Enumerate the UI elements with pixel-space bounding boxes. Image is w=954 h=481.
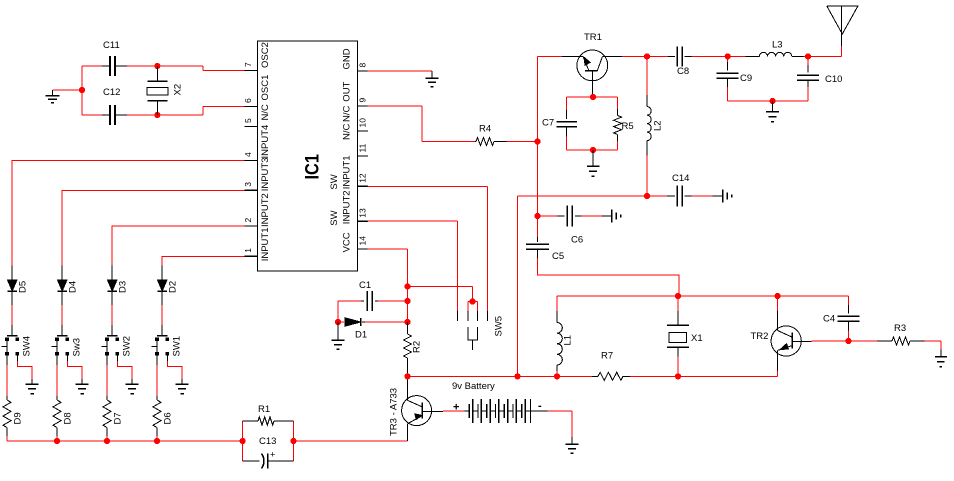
svg-text:1: 1 [243,248,253,253]
svg-text:INPUT1: INPUT1 [260,228,271,262]
svg-text:C4: C4 [823,314,835,325]
svg-text:-: - [538,400,542,412]
svg-text:SW2: SW2 [122,336,133,357]
svg-text:D8: D8 [63,412,74,424]
svg-text:D2: D2 [168,281,179,293]
svg-text:TR2: TR2 [751,331,769,342]
svg-text:D4: D4 [68,281,79,293]
svg-text:3: 3 [243,182,253,187]
svg-text:X1: X1 [691,333,703,344]
svg-text:R7: R7 [601,351,613,362]
svg-text:D5: D5 [18,281,29,293]
svg-text:7: 7 [243,62,253,67]
svg-text:IC1: IC1 [303,154,324,180]
svg-text:SW: SW [329,174,340,189]
svg-text:9v Battery: 9v Battery [452,381,495,392]
svg-text:SW5: SW5 [494,316,505,337]
svg-text:D7: D7 [113,412,124,424]
svg-text:C13: C13 [259,436,276,447]
svg-text:D9: D9 [13,412,24,424]
svg-text:OUT: OUT [342,81,353,101]
svg-text:D1: D1 [355,330,367,341]
svg-text:C12: C12 [103,87,120,98]
svg-text:OSC1: OSC1 [260,75,271,101]
svg-text:C5: C5 [552,251,564,262]
svg-text:N/C: N/C [342,124,353,141]
svg-text:C8: C8 [677,66,689,77]
svg-text:GND: GND [342,48,353,69]
svg-text:R1: R1 [258,404,270,415]
svg-text:C6: C6 [571,235,583,246]
svg-text:6: 6 [243,98,253,103]
svg-text:SW: SW [329,210,340,225]
svg-text:C7: C7 [542,118,554,129]
svg-text:R5: R5 [622,121,634,132]
svg-text:12: 12 [358,173,368,183]
svg-text:C11: C11 [103,40,120,51]
svg-text:9: 9 [358,98,368,103]
svg-text:L2: L2 [653,120,664,131]
svg-text:C1: C1 [359,280,371,291]
svg-text:D3: D3 [118,281,129,293]
svg-text:SW4: SW4 [22,336,33,357]
svg-text:R2: R2 [412,341,423,353]
svg-text:N/C: N/C [260,104,271,121]
svg-text:Sw3: Sw3 [72,338,83,356]
svg-text:+: + [270,450,275,460]
svg-text:R3: R3 [894,323,906,334]
svg-text:8: 8 [358,63,368,68]
svg-text:C14: C14 [672,173,689,184]
svg-text:14: 14 [358,236,368,246]
svg-text:X2: X2 [173,84,184,96]
svg-text:11: 11 [358,143,368,152]
svg-text:TR3 - A733: TR3 - A733 [389,388,400,436]
svg-text:OSC2: OSC2 [260,42,271,68]
svg-text:5: 5 [243,118,253,123]
svg-text:C9: C9 [740,73,752,84]
svg-text:+: + [453,402,459,414]
svg-text:L1: L1 [563,335,574,346]
svg-text:VCC: VCC [342,232,353,252]
svg-text:10: 10 [358,118,368,128]
svg-text:13: 13 [358,208,368,218]
svg-text:INPUT4: INPUT4 [260,125,271,159]
svg-text:4: 4 [243,152,253,157]
svg-text:TR1: TR1 [584,32,602,43]
svg-text:L3: L3 [772,40,783,51]
svg-text:INPUT2: INPUT2 [260,193,271,227]
svg-text:C10: C10 [825,74,842,85]
svg-text:N/C: N/C [342,106,353,123]
svg-text:INPUT1: INPUT1 [342,156,353,190]
svg-text:INPUT3: INPUT3 [260,158,271,192]
svg-text:2: 2 [243,218,253,223]
svg-text:R4: R4 [479,124,491,135]
svg-text:SW1: SW1 [172,336,183,357]
svg-text:D6: D6 [163,412,174,424]
svg-text:INPUT2: INPUT2 [342,190,353,224]
